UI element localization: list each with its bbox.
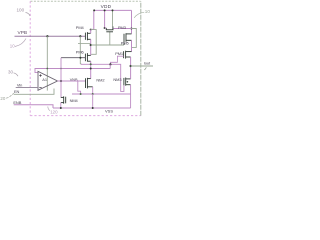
svg-text:VSS: VSS (105, 109, 113, 114)
node line2-bias cross (46, 68, 48, 70)
svg-text:100: 100 (17, 8, 25, 13)
wire PM3 drain to right column (114, 28, 132, 30)
wire VDD rail right corner down to PM5 (131, 10, 133, 33)
transistor NM2 (86, 78, 93, 89)
transistor PM6 (85, 53, 90, 62)
VDD rail (94, 9, 132, 11)
node line2-PM6drain cross (90, 68, 92, 70)
svg-text:ENB: ENB (13, 100, 21, 105)
VSS rail (72, 93, 131, 95)
wire VDD drop to PM3 left lead (104, 10, 106, 28)
wire line1 VPB cascode to NM3 gate (81, 64, 124, 91)
svg-text:10: 10 (145, 9, 151, 14)
PM6 gate line (61, 57, 85, 59)
node PM3 left junction (104, 27, 106, 29)
svg-text:VDD: VDD (101, 4, 112, 9)
wire PM5 drain down to PM1 (131, 40, 133, 51)
transistor PM5 (124, 33, 132, 45)
node VSS-NM4 junction (60, 107, 62, 109)
wire bias down through op-amp (46, 36, 48, 90)
svg-text:PM3: PM3 (118, 25, 127, 30)
wire PM1 drain down to NM3 (130, 57, 132, 79)
wire NM4 drain up to VNB (60, 96, 62, 98)
wire mirror gate line y45 (91, 44, 124, 46)
dashed block boundary 10 (30, 1, 141, 116)
node VSS-NM2 junction (92, 93, 94, 95)
wire VSS bottom line (53, 107, 131, 109)
op-amp A1 (38, 71, 58, 90)
node line1-PM6drain cross (90, 63, 92, 65)
node VNB branch (60, 80, 62, 82)
svg-text:A1: A1 (42, 77, 47, 82)
wire line2 up-jog into line1 (109, 64, 111, 68)
svg-text:30: 30 (8, 69, 13, 74)
node line1-line2 merge (109, 63, 111, 65)
wire PM3 left lead jog (105, 27, 107, 29)
svg-text:NM4: NM4 (70, 98, 79, 103)
callout 10 right (134, 9, 150, 18)
transistor PM4 (85, 32, 90, 40)
wire line2 feedback to op-amp (35, 69, 110, 73)
wire nwell bypass right pair (131, 29, 136, 48)
wire PM3 gate lead down (109, 32, 111, 45)
wire nwell bypass left pair (91, 30, 97, 55)
wire VDD drop to PM4 (91, 10, 94, 29)
wire Iout line (131, 65, 153, 67)
wire ENB input (14, 105, 53, 108)
callout 30 left of op-amp (8, 69, 18, 76)
node Iout tap (130, 65, 132, 67)
svg-text:PM1: PM1 (115, 51, 123, 56)
node VSS-stub junction (92, 107, 94, 109)
wire Vin input (16, 87, 38, 89)
wire op-amp output VNB (58, 80, 86, 82)
transistor NM4 (mirrored) (61, 96, 66, 103)
transistor PM1 (124, 51, 132, 59)
callout 10 near VPB (10, 39, 26, 49)
transistor PM3 (horizontal) (106, 26, 114, 31)
wire VPB branch down to line1 (80, 36, 81, 64)
wire gate tie y43 (78, 42, 91, 44)
svg-text:PM4: PM4 (76, 25, 85, 30)
node PM4 drain junction (90, 44, 92, 46)
svg-text:VPB: VPB (18, 30, 28, 36)
node VPB-A1 bias junction (46, 35, 48, 37)
svg-text:PM5: PM5 (121, 40, 130, 45)
node PM5 drain-rail junction (130, 28, 132, 30)
transistor NM3 (124, 78, 131, 86)
svg-text:PM6: PM6 (76, 50, 85, 55)
wire VSS rail stub down (92, 94, 94, 108)
callout 120 bottom (48, 107, 58, 115)
wire NM4 source down (60, 103, 62, 108)
svg-text:Iout: Iout (144, 60, 151, 65)
wire VNB to VSS pulldown path (78, 81, 81, 94)
node PM6 gate junction (79, 57, 81, 59)
wire PM4 drain down to PM6 (90, 39, 92, 55)
wire NM3 source down to VSS line (130, 85, 132, 108)
wire VNB vertical branch (60, 58, 62, 98)
VPB rail (15, 35, 86, 37)
svg-text:NM3: NM3 (113, 77, 122, 82)
wire PM1 gate route to line1 junction (110, 56, 123, 64)
wire EN input (14, 89, 54, 95)
svg-text:Vin: Vin (17, 82, 22, 87)
svg-text:120: 120 (50, 110, 58, 115)
node line2-vnb branch cross (60, 68, 62, 70)
node VSS-pulldown junction (80, 93, 82, 95)
node rail-drop junctions (93, 9, 95, 11)
node PM4 source junction (90, 29, 92, 31)
callout 100 top-left (17, 8, 31, 17)
wire NM2 source down (92, 87, 94, 94)
wire PM6 drain down to NM2 (90, 61, 92, 78)
wire VDD drop to PM3 right lead (112, 10, 114, 26)
node VPB-line1 junction (79, 35, 81, 37)
Iout arrow tick (144, 67, 146, 70)
svg-text:10: 10 (10, 44, 15, 49)
svg-text:20: 20 (0, 96, 5, 101)
svg-text:NM2: NM2 (96, 78, 104, 83)
svg-text:EN: EN (14, 89, 20, 94)
wire PM4 source up (90, 30, 92, 34)
callout 20 lower-left (0, 93, 13, 101)
